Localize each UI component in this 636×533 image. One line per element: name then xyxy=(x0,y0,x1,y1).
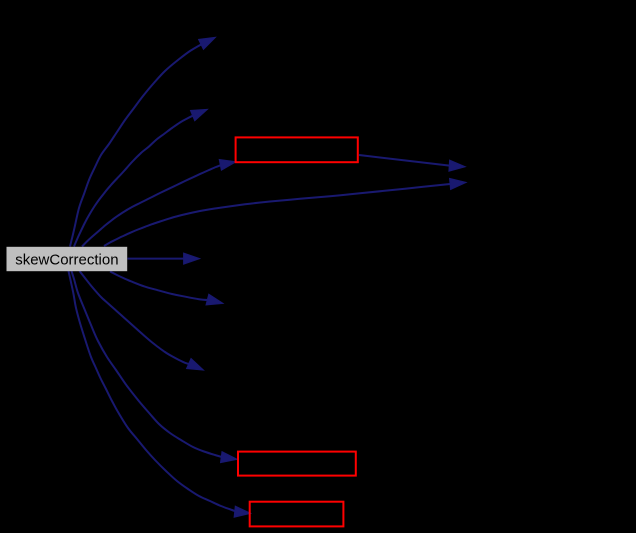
node skewCorrection (current node, grey) xyxy=(7,247,128,271)
edge skewCorrection->node5 (horizontal) xyxy=(128,253,201,264)
node red box 3 xyxy=(250,502,344,527)
edge red box 1->node4 xyxy=(359,155,466,171)
svg-text:skewCorrection: skewCorrection xyxy=(15,251,118,268)
edge skewCorrection->node3 (red box 1) xyxy=(82,159,236,246)
edge skewCorrection->node1 (top) xyxy=(70,37,216,246)
edge skewCorrection->node4 (long) xyxy=(104,178,466,246)
node red box 1 xyxy=(236,137,358,162)
edge skewCorrection->node9 (red box 3) xyxy=(69,271,252,517)
edge skewCorrection->node8 (red box 2) xyxy=(72,271,238,463)
edge skewCorrection->node2 xyxy=(74,109,208,246)
edge skewCorrection->node6 xyxy=(110,272,223,306)
edge skewCorrection->node7 xyxy=(80,271,204,370)
node red box 2 xyxy=(238,452,356,476)
